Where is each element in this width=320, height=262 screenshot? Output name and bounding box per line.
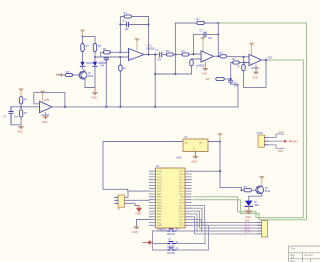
- svg-text:P3.2: P3.2: [157, 202, 162, 204]
- resistor R1: [81, 44, 90, 52]
- wire to U3 inv: [227, 55, 250, 58]
- wire regulator output: [208, 142, 242, 191]
- resistor R11: [220, 51, 227, 58]
- resistor R4: [101, 47, 129, 57]
- node: [217, 22, 219, 24]
- svg-text:R?: R?: [220, 51, 224, 55]
- green net analog out: [193, 60, 303, 218]
- svg-text:GND: GND: [191, 160, 197, 163]
- resistor R17 base: [244, 185, 257, 192]
- svg-text:P2.6: P2.6: [179, 208, 184, 210]
- resistor R5: [124, 11, 132, 18]
- bias divider VCC: [18, 88, 24, 96]
- switch S2: [167, 240, 179, 249]
- svg-text:P1.0: P1.0: [157, 171, 162, 173]
- connector J3: [258, 221, 268, 238]
- svg-text:P1.6: P1.6: [157, 188, 162, 190]
- green net comparator top: [193, 23, 307, 220]
- svg-text:P0.4: P0.4: [179, 185, 184, 187]
- ground U4: [42, 113, 49, 124]
- svg-text:R?: R?: [66, 70, 70, 74]
- ground LED: [244, 206, 253, 218]
- capacitor C2: [100, 57, 108, 67]
- MCU pin names right column: [179, 171, 184, 227]
- wire resonator pin1: [125, 191, 129, 197]
- node: [242, 56, 244, 58]
- resistor R6 vertical to rail: [119, 57, 127, 107]
- svg-text:U?: U?: [156, 164, 160, 168]
- op-amp U2: [196, 51, 214, 68]
- wire resonator pin2: [125, 199, 150, 201]
- svg-text:P0.7: P0.7: [179, 194, 184, 196]
- node A stage2: [174, 53, 176, 55]
- svg-text:VCC: VCC: [179, 171, 184, 173]
- svg-text:GND: GND: [17, 131, 23, 134]
- svg-text:102: 102: [208, 37, 213, 40]
- wire out stage2: [214, 55, 221, 57]
- switch S1: [167, 229, 179, 236]
- ground U2: [202, 62, 209, 75]
- svg-text:GND: GND: [91, 97, 97, 100]
- vertical to VR chain: [230, 63, 232, 80]
- svg-text:102: 102: [125, 28, 130, 31]
- regulator ground pin: [176, 152, 199, 164]
- node: [119, 106, 121, 108]
- svg-text:104: 104: [14, 115, 19, 118]
- resistor R14: [216, 77, 231, 80]
- ground arrow resonator: [135, 206, 141, 216]
- wire J2 pin1: [268, 134, 284, 138]
- svg-text:P3.1: P3.1: [157, 200, 162, 202]
- svg-text:P1.3: P1.3: [245, 231, 251, 234]
- svg-text:ALE: ALE: [179, 199, 184, 202]
- svg-text:-: -: [250, 56, 251, 60]
- svg-text:P2.2: P2.2: [179, 220, 184, 222]
- switch common rail: [153, 231, 168, 250]
- svg-text:P0.2: P0.2: [179, 180, 184, 182]
- node: [192, 53, 194, 55]
- node: [217, 33, 219, 35]
- wire C2 to rail: [105, 62, 107, 107]
- svg-text:GND: GND: [252, 76, 258, 79]
- feedback wire stage1 left: [120, 17, 124, 53]
- ground U3: [252, 65, 259, 79]
- power VCC U1: [134, 38, 140, 49]
- svg-text:R?: R?: [166, 49, 170, 53]
- svg-text:R?: R?: [98, 44, 102, 48]
- ground sensor: [91, 88, 98, 100]
- svg-text:R?: R?: [196, 18, 200, 22]
- wire J2 pin2 port: [268, 140, 292, 143]
- feedback stage2 top resistor R9: [175, 18, 218, 25]
- node: [217, 55, 219, 57]
- feedback U3 resistor R13: [237, 57, 266, 88]
- switch S3: [167, 248, 179, 255]
- regulator U5 78L05: [183, 135, 208, 151]
- vertical net stage2: [174, 23, 176, 74]
- svg-text:Number: Number: [304, 254, 313, 257]
- svg-text:GND: GND: [132, 231, 138, 234]
- op-amp U1A: [129, 43, 155, 60]
- resistor R8: [182, 49, 189, 56]
- svg-text:P3.4: P3.4: [157, 208, 162, 210]
- ground MCU: [132, 227, 140, 235]
- svg-text:VR?: VR?: [205, 77, 211, 81]
- wire: [82, 37, 84, 62]
- node photodiode tap: [94, 56, 96, 58]
- bias rail stage2: [155, 73, 191, 75]
- node: [154, 106, 156, 108]
- node: [265, 59, 267, 61]
- node: [240, 189, 242, 191]
- svg-text:P0.3: P0.3: [179, 183, 184, 185]
- svg-text:P2.1: P2.1: [179, 222, 184, 224]
- svg-text:R?: R?: [244, 185, 248, 189]
- feedback U4: [34, 93, 65, 107]
- svg-text:P3.0: P3.0: [157, 197, 162, 199]
- feedback right vertical stage2: [217, 23, 219, 56]
- capacitor C8: [4, 107, 19, 125]
- node: [154, 53, 156, 55]
- svg-text:LM358: LM358: [196, 64, 204, 68]
- svg-text:R?: R?: [86, 44, 90, 48]
- node: [147, 23, 149, 25]
- wire resonator pin3 to gnd: [125, 203, 140, 205]
- svg-text:9012: 9012: [265, 190, 271, 193]
- node stage1 inv: [119, 51, 121, 53]
- svg-text:P3.5: P3.5: [157, 211, 162, 213]
- wire to gnd: [11, 124, 21, 126]
- node: [154, 73, 156, 75]
- svg-text:PSE: PSE: [179, 202, 184, 204]
- resistor R16: [19, 110, 27, 125]
- wire node to R17: [242, 189, 245, 191]
- svg-text:104: 104: [100, 64, 105, 67]
- svg-text:GND: GND: [176, 157, 182, 160]
- node: [119, 23, 121, 25]
- resistor R10 to bias: [190, 59, 201, 74]
- svg-text:VCC: VCC: [279, 131, 284, 134]
- node: [230, 78, 232, 80]
- wire: [132, 17, 149, 55]
- diode D2 1N4148: [93, 62, 107, 67]
- svg-text:R?: R?: [232, 57, 236, 61]
- wire collector to diode D1: [83, 66, 86, 71]
- svg-text:U?: U?: [184, 135, 188, 139]
- ground divider: [17, 125, 24, 134]
- wire: [173, 54, 182, 56]
- svg-text:P2.0: P2.0: [179, 225, 184, 227]
- svg-text:P3.3: P3.3: [157, 205, 162, 207]
- svg-text:P0.0: P0.0: [179, 174, 184, 176]
- node bias: [20, 106, 22, 108]
- svg-text:LM358: LM358: [251, 66, 259, 70]
- power VCC U3: [249, 43, 255, 54]
- svg-text:LED: LED: [254, 204, 259, 207]
- resistor R7: [166, 49, 173, 56]
- svg-text:GND: GND: [135, 212, 141, 216]
- svg-text:9014: 9014: [88, 75, 94, 78]
- node j1: [82, 36, 84, 38]
- svg-text:P1.7: P1.7: [157, 191, 162, 193]
- wire MCU VCC pin40: [191, 170, 220, 172]
- svg-text:CON?: CON?: [257, 132, 264, 135]
- wire regulator input from battery: [103, 142, 183, 192]
- svg-text:P1.3: P1.3: [157, 180, 162, 182]
- svg-text:P1.1: P1.1: [157, 174, 162, 176]
- node: [64, 106, 66, 108]
- resistor R2: [93, 44, 102, 52]
- node: [174, 73, 176, 75]
- op-amp U4 bias follower: [40, 98, 53, 117]
- resistor R15: [19, 97, 27, 110]
- svg-text:P2.5: P2.5: [179, 211, 184, 213]
- MCU pins: [149, 171, 191, 225]
- svg-text:P3.7: P3.7: [157, 217, 162, 219]
- wire out stage1: [144, 54, 158, 56]
- svg-text:R?: R?: [182, 49, 186, 53]
- svg-text:R?: R?: [103, 47, 107, 51]
- wire MCU gnd pin20: [137, 220, 150, 227]
- wire C7 to rail: [231, 84, 238, 107]
- svg-text:SW-PB: SW-PB: [167, 234, 175, 236]
- capacitor C4 series: [156, 49, 167, 61]
- svg-text:LM358: LM358: [147, 46, 155, 50]
- svg-text:-: -: [130, 51, 131, 55]
- svg-text:G: G: [193, 148, 195, 151]
- svg-text:SW-PB: SW-PB: [167, 253, 175, 255]
- svg-text:BAT: BAT: [293, 140, 298, 143]
- power VCC U2: [200, 37, 206, 51]
- svg-text:R?: R?: [124, 11, 128, 15]
- svg-text:GND: GND: [278, 150, 284, 153]
- LED D3: [245, 201, 259, 207]
- node: [244, 62, 246, 64]
- wire emitter down: [85, 66, 95, 87]
- net labels J3: [245, 220, 251, 235]
- svg-text:GND: GND: [42, 121, 48, 124]
- power VCC U4: [40, 91, 46, 102]
- node: [105, 106, 107, 108]
- node: [219, 170, 221, 172]
- svg-text:GND: GND: [202, 72, 208, 75]
- bias rail long: [52, 106, 238, 108]
- svg-text:P1.5: P1.5: [157, 185, 162, 187]
- power VCC regulator: [217, 133, 223, 141]
- node stage1 plus: [119, 56, 121, 58]
- svg-text:P2.7: P2.7: [179, 205, 184, 207]
- svg-text:P1.4: P1.4: [157, 183, 162, 185]
- svg-text:RST: RST: [157, 194, 162, 196]
- svg-text:GND: GND: [157, 225, 162, 227]
- diode D1 1N4148: [80, 62, 94, 67]
- svg-text:P2.3: P2.3: [179, 217, 184, 219]
- svg-text:104: 104: [157, 58, 162, 61]
- vertical x155: [154, 55, 156, 107]
- svg-text:-: -: [41, 103, 42, 107]
- svg-text:U?B: U?B: [44, 98, 49, 102]
- transistor Q2: [256, 186, 271, 194]
- wire bias left: [11, 106, 40, 108]
- MCU U6 AT89C51: [156, 164, 186, 232]
- power VCC Q2: [259, 176, 265, 186]
- svg-text:P0.1: P0.1: [179, 177, 184, 179]
- capacitor C7: [229, 79, 239, 88]
- svg-text:GND: GND: [245, 216, 251, 219]
- transistor Q1: [79, 71, 94, 79]
- svg-text:P3.6: P3.6: [157, 214, 162, 216]
- capacitor C5 feedback: [194, 29, 219, 54]
- wire: [94, 37, 96, 62]
- title block frame: [289, 246, 320, 262]
- op-amp U3: [249, 54, 262, 70]
- connector J2 power: [257, 132, 269, 147]
- svg-text:OUT: OUT: [268, 56, 274, 59]
- wire to U2 inv: [189, 53, 201, 56]
- resistor R12: [231, 57, 249, 64]
- MCU pin names left column: [157, 171, 162, 227]
- input port: [57, 74, 62, 77]
- svg-text:P2.4: P2.4: [179, 214, 184, 216]
- wire out stage4: [262, 59, 269, 61]
- svg-text:P1.2: P1.2: [157, 177, 162, 179]
- node: [147, 53, 149, 55]
- capacitor C3: [120, 20, 148, 31]
- wire sensor tap to stage1: [95, 56, 129, 58]
- wire: [83, 36, 96, 38]
- resonator Y1: [115, 195, 125, 211]
- connector bus wires P0: [191, 205, 258, 234]
- svg-text:-: -: [202, 52, 203, 56]
- svg-text:P0.6: P0.6: [179, 191, 184, 193]
- power VCC sensor: [80, 30, 86, 37]
- wire J2 pin3: [268, 145, 284, 149]
- port arrow common: [143, 241, 153, 244]
- node: [219, 140, 221, 142]
- button wires: [175, 220, 209, 250]
- svg-text:P0.5: P0.5: [179, 188, 184, 190]
- svg-text:Title: Title: [291, 248, 296, 251]
- wire Q2 collector to LED: [249, 194, 262, 201]
- resistor R3: [61, 70, 80, 77]
